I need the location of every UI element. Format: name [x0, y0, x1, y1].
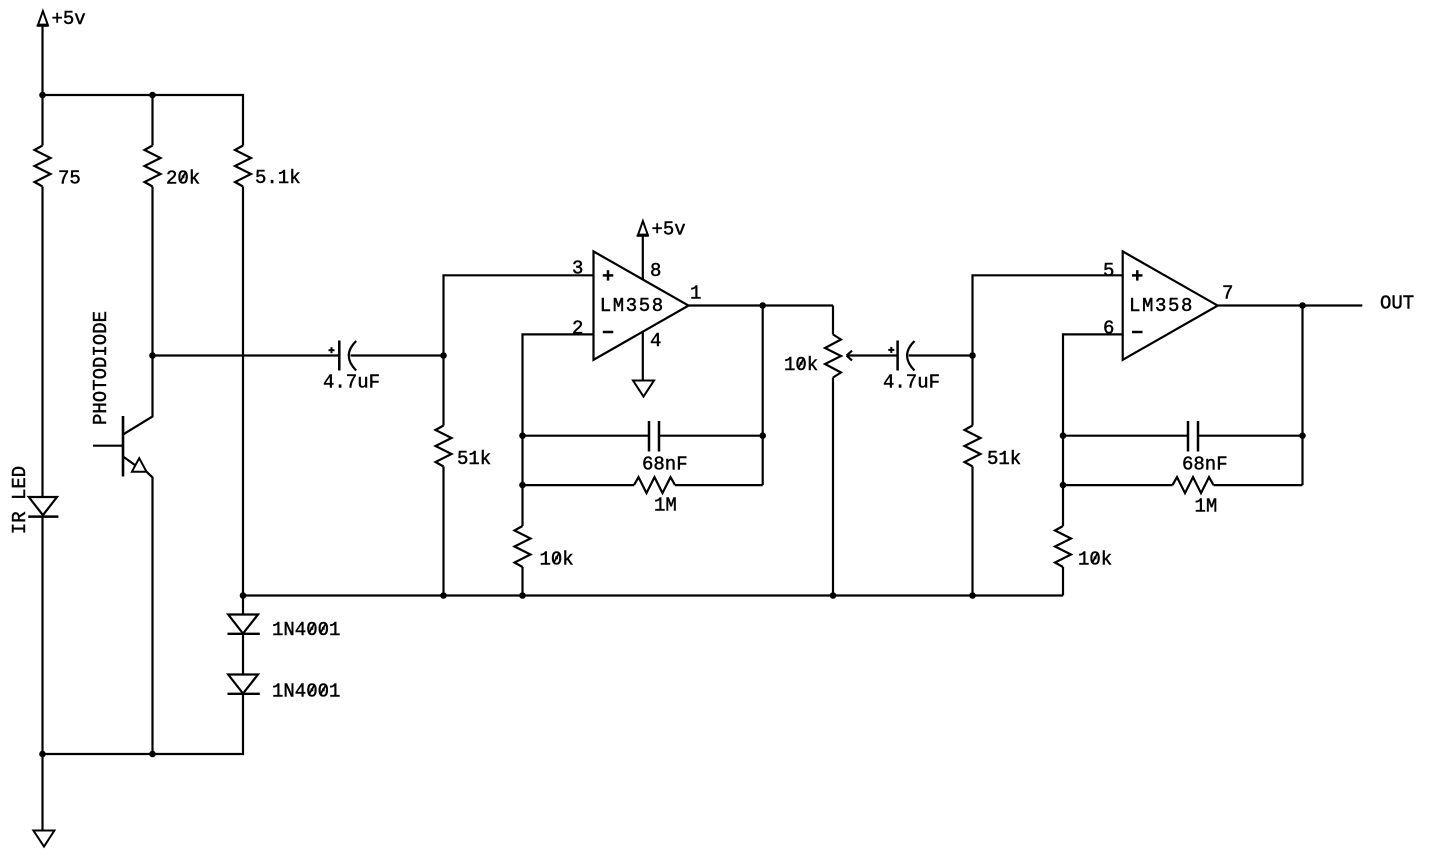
svg-text:10k: 10k: [784, 354, 818, 376]
ground symbol (bottom left): [33, 831, 54, 847]
wire: C2 to node B: [909, 354, 973, 356]
resistor 10k (left, to ground): [515, 526, 531, 567]
wire: feedback right leg (U1): [762, 306, 764, 486]
wire: pin 2 feedback riser: [523, 334, 594, 526]
resistor 10k (right, to ground): [1055, 526, 1071, 567]
wire: left rail IR LED to bottom bus: [41, 517, 43, 754]
zero slash in 20k: [180, 172, 186, 182]
wire: 1M row right (U1): [675, 484, 763, 486]
node: ground bus / diode column: [240, 592, 247, 599]
wire: top bus with corner down to 5.1k: [43, 95, 244, 146]
wire: D2 to bottom-left bus: [43, 694, 244, 754]
op-amp U1 minus input mark: [603, 331, 614, 334]
diode D1 1N4001: [228, 615, 260, 634]
wire: 51k right bottom to ground bus: [971, 467, 973, 596]
wire: U1 output to potentiometer: [689, 304, 834, 306]
wire: 5.1k bottom to diode node: [242, 187, 244, 615]
op-amp U1 LM358 triangle: [594, 251, 689, 359]
svg-text:1M: 1M: [1195, 496, 1218, 518]
wire: left rail to ground symbol: [41, 754, 43, 830]
svg-text:7: 7: [1222, 283, 1233, 305]
node: U2 output junction: [1299, 302, 1306, 309]
wire: feedback right leg (U2): [1301, 306, 1303, 486]
node: U2 feedback leg / 68nF row: [1299, 432, 1306, 439]
capacitor 68nF (U2): [1188, 421, 1198, 452]
svg-text:51k: 51k: [987, 448, 1021, 470]
op-amp U2 minus input mark: [1132, 331, 1143, 334]
node: U1 feedback leg / 68nF row: [759, 432, 766, 439]
node B: C2 / 51k / pin5: [969, 352, 976, 359]
svg-text:20k: 20k: [166, 168, 200, 190]
wire: 20k top lead: [151, 95, 153, 146]
wire: ground bus (middle): [243, 594, 1063, 596]
svg-text:PHOTODIODE: PHOTODIODE: [90, 311, 112, 425]
svg-text:4.7uF: 4.7uF: [883, 372, 940, 394]
zero slash in 10k pot: [798, 358, 804, 368]
wire: U2 output to OUT: [1218, 304, 1363, 306]
svg-text:5: 5: [1103, 260, 1114, 282]
power +5v symbol (op-amp U1): [637, 221, 649, 236]
op-amp U2 LM358 triangle: [1123, 251, 1218, 359]
svg-text:51k: 51k: [457, 448, 491, 470]
wire: node A riser to pin 3: [444, 275, 594, 425]
op-amp U2 plus input mark: [1132, 270, 1143, 280]
svg-text:OUT: OUT: [1380, 293, 1414, 315]
wire: 1M row left (U1): [523, 484, 635, 486]
svg-text:8: 8: [650, 260, 661, 282]
wire: left rail from +5v to top bus: [41, 26, 43, 95]
svg-text:LM358: LM358: [1129, 295, 1194, 317]
slashed zero overlays: [180, 172, 1098, 695]
IR LED diode: [28, 497, 58, 517]
wire: 68nF row right (U2): [1198, 435, 1303, 437]
svg-text:1N4001: 1N4001: [272, 619, 340, 641]
wire: 20k bottom to phototransistor collector: [123, 187, 153, 435]
svg-text:10k: 10k: [1078, 549, 1112, 571]
resistor 51k (right): [965, 426, 981, 467]
node: ground bus / 51k left: [440, 592, 447, 599]
diode D2 1N4001: [228, 675, 260, 694]
zero slash in 10k left: [554, 553, 560, 563]
resistor 5.1k: [235, 146, 251, 187]
node: pin2 riser / 68nF row (U1): [519, 432, 526, 439]
wire: 10k right bottom to ground bus corner: [1062, 567, 1064, 596]
svg-text:3: 3: [572, 258, 583, 280]
capacitor 68nF (U1): [649, 421, 659, 452]
svg-text:1M: 1M: [654, 495, 677, 517]
op-amp U1 ground pin 4 line: [642, 330, 644, 381]
svg-text:1: 1: [690, 283, 701, 305]
ground symbol (op-amp U1): [633, 381, 654, 397]
svg-text:1N4001: 1N4001: [272, 681, 340, 703]
svg-text:LM358: LM358: [600, 295, 665, 317]
wire: 68nF row left (U1): [523, 435, 650, 437]
svg-text:4.7uF: 4.7uF: [323, 372, 380, 394]
wire: 51k bottom to ground bus: [442, 467, 444, 596]
resistor 75: [35, 146, 51, 187]
zero slashes in 1N4001 (D2): [309, 685, 315, 695]
node: pin6 riser / 68nF row (U2): [1060, 432, 1067, 439]
node: pin2 riser / 1M row (U1): [519, 482, 526, 489]
node: collector / C1 wire: [149, 352, 156, 359]
svg-text:5.1k: 5.1k: [255, 167, 301, 189]
svg-text:6: 6: [1103, 318, 1114, 340]
wire: 1M row right (U2): [1214, 484, 1303, 486]
svg-text:+5v: +5v: [652, 219, 686, 241]
svg-text:IR LED: IR LED: [9, 466, 31, 534]
svg-text:68nF: 68nF: [642, 454, 688, 476]
wire: 68nF row right (U1): [659, 435, 763, 437]
node: ground bus / potentiometer: [830, 592, 837, 599]
node: ground bus / 10k left: [519, 592, 526, 599]
op-amp U1 power pin 8 line: [642, 236, 644, 282]
capacitor C1 4.7uF (polarized): [329, 341, 357, 371]
resistor 1M (U1 feedback): [634, 477, 675, 493]
svg-text:2: 2: [572, 318, 583, 340]
op-amp U1 plus input mark: [603, 270, 614, 280]
node: pin6 riser / 1M row (U2): [1060, 482, 1067, 489]
node A: C1 / 51k / pin3: [440, 352, 447, 359]
power +5v symbol (top left): [37, 11, 49, 26]
wire: 1M row left (U2): [1063, 484, 1173, 486]
wire: collector node to capacitor C1: [153, 354, 340, 356]
capacitor C2 4.7uF (polarized): [888, 341, 914, 371]
wire: 10k bottom to ground bus: [521, 567, 523, 596]
resistor 51k (left): [436, 426, 452, 467]
node: top bus / 20k: [149, 92, 156, 99]
wire: C1 to node A: [351, 354, 444, 356]
wire: 68nF row left (U2): [1063, 435, 1188, 437]
svg-text:+5v: +5v: [52, 8, 86, 30]
node: bottom bus / emitter column: [149, 751, 156, 758]
zero slash in 10k right: [1092, 553, 1098, 563]
phototransistor Q1: [93, 416, 153, 754]
node: bottom bus / left rail: [39, 751, 46, 758]
node: ground bus / 51k right: [969, 592, 976, 599]
svg-text:10k: 10k: [540, 549, 574, 571]
resistor 20k: [145, 146, 161, 187]
svg-text:75: 75: [58, 168, 81, 190]
wire: D1 to D2: [242, 634, 244, 675]
svg-text:4: 4: [650, 330, 661, 352]
potentiometer 10k: [825, 306, 898, 596]
node: U1 output junction: [759, 302, 766, 309]
wire: node B riser to pin 5: [973, 275, 1123, 425]
zero slashes in 1N4001 (D1): [309, 623, 315, 633]
svg-text:68nF: 68nF: [1182, 454, 1228, 476]
node: top bus / left rail: [39, 92, 46, 99]
wire: pin 6 feedback riser: [1063, 334, 1123, 526]
wire: left rail resistor to IR LED: [41, 187, 43, 498]
resistor 1M (U2 feedback): [1173, 477, 1214, 493]
